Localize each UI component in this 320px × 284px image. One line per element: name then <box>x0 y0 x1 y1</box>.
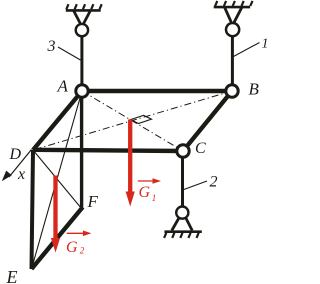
wire: dash-dot diagonal A-C <box>82 91 183 151</box>
plate edge A-D <box>33 91 82 150</box>
plate edge B-C <box>183 91 232 151</box>
svg-text:E: E <box>6 267 18 284</box>
pin circle of support 3 <box>76 24 88 36</box>
svg-text:F: F <box>87 192 99 211</box>
node C (hinge circle) <box>177 145 189 157</box>
svg-text:2: 2 <box>210 174 218 191</box>
node B (hinge circle) <box>226 85 238 97</box>
support for rod 2 (hatched ground, bottom) <box>164 218 202 238</box>
support for rod 1 (hatched wall, top-right) <box>214 1 253 22</box>
force G2 (red arrow down at vertical plate centre) <box>51 176 60 253</box>
pin circle of support 2 <box>176 207 188 219</box>
node A (hinge circle) <box>76 85 88 97</box>
svg-text:1: 1 <box>152 193 157 203</box>
pin circle of support 1 <box>226 23 239 36</box>
wire: thin diagonal A-E of vertical plate <box>32 91 83 269</box>
label G2 with vector arrow <box>66 231 91 257</box>
rod 1 (link from B to upper-right support) <box>231 36 234 84</box>
label G1 with vector arrow <box>138 178 161 203</box>
wire: leader line for label 3 <box>58 47 81 60</box>
plate edge D-E <box>32 150 34 269</box>
plate edge F-A (vertical, crosses bar D-C) <box>80 91 83 210</box>
svg-text:1: 1 <box>262 37 269 52</box>
svg-text:A: A <box>57 77 69 96</box>
svg-text:D: D <box>9 146 22 163</box>
svg-text:G: G <box>66 239 78 256</box>
svg-text:B: B <box>249 79 260 98</box>
wire: thin diagonal D-F of vertical plate <box>33 150 82 209</box>
x-axis arrow at D <box>9 150 32 178</box>
wire: leader line for label 2 <box>183 181 208 190</box>
svg-text:2: 2 <box>80 246 85 256</box>
support for rod 3 (hatched wall, top-left) <box>66 4 102 23</box>
wire: leader line for label 1 <box>234 43 260 57</box>
plate edge D-C <box>33 150 183 151</box>
plane element mark at G1 application point <box>131 115 152 123</box>
svg-text:3: 3 <box>47 38 56 55</box>
svg-text:G: G <box>139 184 151 201</box>
svg-text:C: C <box>195 140 206 157</box>
rod 3 (link from A to upper-left support) <box>80 36 83 84</box>
plate edge A-B <box>82 89 232 93</box>
wire: dash-dot diagonal B-D <box>33 91 232 150</box>
svg-text:x: x <box>17 166 25 183</box>
force G1 (red arrow down at plate centre) <box>126 120 135 207</box>
plate edge E-F <box>32 207 83 269</box>
rod 2 (link from C to lower support) <box>181 158 184 206</box>
